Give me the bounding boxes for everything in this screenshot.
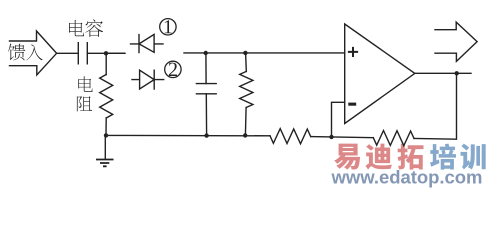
wire feedback resistor to output node [414,73,457,139]
node A junction dot [104,51,108,55]
wire input to capacitor [57,52,79,54]
wire op-amp output [415,72,471,74]
label ② [165,61,181,77]
diode D2 (points right) [132,70,164,89]
resistor (shunt, label 电阻) [77,53,113,135]
wire top rail to op-amp + input [184,52,345,54]
svg-text:www.edatop.com: www.edatop.com [331,167,483,188]
resistor (feedback, right) [373,131,414,146]
junction dot at ground rail [104,133,108,137]
junction dot shunt cap to rail [204,133,208,137]
watermark www.edatop.com [331,167,483,188]
junction dot shunt resistor to rail [243,133,247,137]
capacitor (series coupling, label 电容) [69,19,103,63]
resistor (shunt load) [240,53,253,135]
input feed arrow (馈入) [8,31,56,75]
ground [96,135,114,166]
op-amp U1 [345,24,415,124]
wire bottom rail ground to resistor [106,134,270,136]
node D junction dot (inverting input branch) [329,135,333,139]
watermark 易迪拓培训 [334,144,486,170]
wire resistor to node D [311,137,374,138]
output arrow [435,22,477,61]
wire capacitor to node A [87,52,125,54]
node B junction dot [204,51,208,55]
output node junction dot [455,71,459,75]
diode D1 (points left) [131,34,164,52]
capacitor (shunt filter) [196,53,216,136]
resistor (series in feedback path, left) [270,129,311,144]
node C junction dot [243,51,247,55]
wire stub from node A toward diodes [106,52,125,54]
wire node D up to inverting input [332,102,345,137]
label ① [160,19,176,35]
